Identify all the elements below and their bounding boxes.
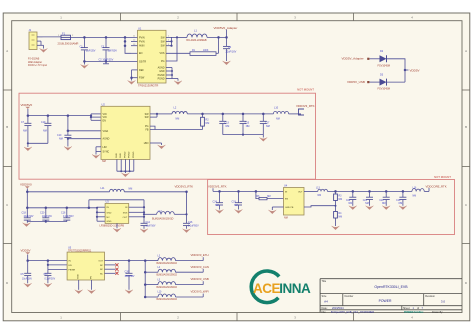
inductor L10 (NM) (273, 111, 288, 114)
ground rail / SS wire (84, 60, 137, 62)
svg-text:NM: NM (226, 125, 230, 128)
svg-text:C21: C21 (363, 200, 368, 202)
inductor L3 (ferrite bead) (145, 260, 158, 262)
IC U3 (LDO) (105, 204, 129, 224)
svg-text:NOT MOUNT: NOT MOUNT (297, 88, 314, 92)
bypass cap rail (27, 207, 97, 209)
ground (C10) (64, 147, 72, 151)
svg-text:PVIN: PVIN (139, 40, 145, 43)
wire to U5 (27, 255, 29, 261)
ground (C4) (223, 61, 231, 65)
svg-text:NM: NM (365, 203, 369, 205)
ground (input caps) (83, 61, 85, 64)
feed riser (26, 189, 28, 208)
svg-text:NM: NM (266, 125, 270, 128)
U1 pin stubs left (131, 40, 138, 42)
svg-text:PGND: PGND (133, 151, 135, 158)
svg-text:C29: C29 (346, 200, 351, 202)
svg-text:NM: NM (413, 196, 417, 198)
node VDD5V0_Adapter (217, 36, 220, 39)
ground (U3) (116, 223, 118, 228)
capacitor C17b (NM) (262, 114, 264, 121)
svg-text:B:\OpenRTK_EVB_V3.0_JYF\POWER: B:\OpenRTK_EVB_V3.0_JYF\POWER (331, 311, 374, 314)
svg-text:BLM18AG601SN1D: BLM18AG601SN1D (157, 273, 178, 276)
ground (C14) (140, 229, 148, 233)
svg-text:PGND: PGND (158, 78, 165, 81)
inductor L4 (ferrite bead) (145, 271, 158, 273)
svg-text:GND: GND (107, 221, 112, 223)
ground (C5) (24, 283, 32, 287)
node VDD5V (404, 69, 407, 72)
U2 SW out (150, 113, 162, 115)
svg-text:3.0: 3.0 (441, 299, 446, 303)
svg-text:GND: GND (107, 212, 112, 214)
wire to U1 EN (125, 37, 131, 53)
svg-text:OUT: OUT (123, 217, 128, 219)
svg-text:EN: EN (139, 52, 143, 55)
op-amp U1 (buck regulator) (138, 30, 167, 83)
svg-text:NOT MOUNT: NOT MOUNT (434, 175, 451, 179)
svg-text:OUT: OUT (298, 191, 303, 193)
wire J1 to F1 (43, 36, 62, 38)
wire FB divider (304, 206, 336, 207)
svg-text:D: D (6, 281, 8, 285)
ground (U1 PGND) (174, 81, 182, 85)
capacitor C20 (45, 208, 47, 218)
svg-text:1uF/50V: 1uF/50V (108, 50, 118, 53)
capacitor C24 (NM) (219, 191, 221, 202)
wire U4 GND to ground (272, 206, 283, 208)
svg-text:Date:: Date: (322, 307, 328, 310)
svg-text:NM: NM (284, 217, 288, 220)
port glyph (299, 109, 305, 115)
capacitor C26 (128, 261, 130, 274)
ground (U4 GND) (268, 210, 276, 214)
svg-text:VDD3V3_RTK: VDD3V3_RTK (208, 184, 227, 188)
capacitor C16b (183, 222, 190, 224)
svg-text:L12: L12 (158, 210, 163, 213)
svg-text:2019/5/24: 2019/5/24 (332, 306, 344, 310)
svg-text:ACE: ACE (253, 281, 280, 296)
ground (U1 DEF/FSW) (128, 81, 136, 85)
svg-text:10uF/16V: 10uF/16V (24, 216, 34, 218)
svg-text:PGND: PGND (124, 151, 126, 158)
svg-text:C26: C26 (125, 271, 130, 274)
svg-text:A: A (465, 49, 467, 53)
svg-text:FSV1045M: FSV1045M (378, 88, 391, 91)
capacitor C19 (NM) (47, 116, 49, 124)
svg-text:POWER.SchDoc: POWER.SchDoc (404, 311, 424, 314)
svg-text:FB: FB (145, 129, 148, 132)
connector J1 (29, 32, 37, 50)
svg-text:XFL4020-222MEB: XFL4020-222MEB (186, 39, 207, 42)
svg-text:C19: C19 (41, 121, 46, 124)
svg-text:Sheet: Sheet (403, 307, 410, 310)
svg-text:NM: NM (23, 129, 27, 132)
NOT MOUNT box 1 (19, 93, 316, 179)
svg-text:VDD3V3_WIFI: VDD3V3_WIFI (191, 290, 210, 294)
ground (U5 PG) (88, 290, 96, 294)
svg-text:of: of (417, 307, 419, 310)
svg-text:NM: NM (102, 160, 106, 163)
svg-text:POWER: POWER (379, 299, 392, 303)
svg-text:FB/NR: FB/NR (69, 270, 76, 272)
capacitor C17c (47, 270, 49, 274)
svg-text:SNS: SNS (123, 212, 128, 214)
U3 left pin stubs (97, 206, 105, 208)
node junctions on input rail (83, 36, 86, 39)
svg-text:B: B (6, 125, 8, 129)
svg-text:A4: A4 (324, 299, 328, 303)
ground (U5 GND) (75, 290, 83, 294)
output rail (box2) (327, 190, 412, 192)
svg-text:NM: NM (43, 129, 47, 132)
net VDD3V3_CAN (176, 271, 204, 273)
svg-text:10uF/16V: 10uF/16V (125, 276, 135, 278)
svg-text:VDD5V_USB: VDD5V_USB (347, 80, 365, 84)
svg-text:D: D (465, 281, 467, 285)
svg-text:VDD3V3_RTK: VDD3V3_RTK (175, 184, 194, 188)
svg-text:GND: GND (116, 153, 118, 158)
capacitor C7 (NM) (27, 116, 29, 124)
ACEINNA logo arc (251, 271, 279, 303)
svg-text:L11: L11 (101, 187, 106, 190)
svg-text:VDD5V_Adapter: VDD5V_Adapter (342, 57, 364, 61)
svg-text:VDD3V3_ETH: VDD3V3_ETH (191, 253, 209, 257)
capacitor C1 (83, 37, 85, 47)
svg-text:NM: NM (176, 118, 180, 121)
svg-text:B: B (465, 125, 467, 129)
svg-text:VDDCORE_RTK: VDDCORE_RTK (426, 184, 447, 188)
U5 EN/FB ties (47, 261, 49, 270)
svg-text:VDD3V3_RTK: VDD3V3_RTK (296, 104, 315, 108)
svg-text:Title: Title (322, 280, 327, 283)
inductor L16 (NM) (412, 189, 424, 192)
wire to U4 IN rail (212, 188, 214, 191)
svg-text:C18: C18 (22, 211, 27, 214)
svg-text:C20: C20 (40, 211, 45, 214)
U2 LIM/SYNC stubs (96, 146, 101, 148)
svg-text:Size: Size (322, 295, 327, 298)
svg-text:GND PB: GND PB (285, 207, 294, 209)
svg-text:NM: NM (399, 203, 403, 205)
ground (U2 GND) (122, 173, 130, 177)
wire U2 AGND (68, 138, 101, 140)
svg-text:TPS77533QDRRRQ1: TPS77533QDRRRQ1 (68, 250, 92, 253)
ground (output caps box1) (223, 134, 263, 136)
capacitor C3 (105, 37, 107, 47)
wire VDD5V0 to rail (27, 109, 29, 116)
resistor R3 (NM) (335, 191, 337, 194)
wire L11 to VDD3V3_RTK node (124, 191, 186, 193)
svg-text:Drawn By:: Drawn By: (432, 311, 443, 314)
svg-text:EN: EN (69, 265, 72, 267)
ground (C26) (125, 290, 133, 294)
svg-text:100K: 100K (203, 50, 209, 52)
svg-text:FSV1045M: FSV1045M (378, 64, 391, 67)
svg-text:NM: NM (276, 118, 280, 121)
wire to D2 (370, 58, 380, 60)
svg-text:EN: EN (285, 199, 288, 201)
svg-text:PG: PG (161, 60, 165, 63)
ground (C16b) (183, 229, 191, 233)
wire R1 to output node (216, 52, 219, 54)
inductor L5 (ferrite bead) (145, 284, 158, 286)
svg-text:C16: C16 (61, 211, 66, 214)
bypass wire over U3 (88, 200, 90, 208)
IC U4 (NM LDO) (284, 188, 305, 216)
ground (C17c) (44, 283, 52, 287)
svg-text:C10: C10 (396, 200, 401, 202)
svg-text:NM: NM (339, 199, 343, 201)
U2 bottom GND pins (116, 159, 118, 171)
svg-text:BLM18AG601SN1D: BLM18AG601SN1D (157, 262, 178, 265)
inductor L2 (NM) (162, 113, 172, 115)
ground (C24) (216, 210, 224, 214)
wire U2 LBO to ground (150, 142, 162, 144)
capacitor C29 (NM) (352, 191, 354, 197)
resistor R2 (NM) (202, 114, 204, 117)
svg-text:SYNC: SYNC (103, 151, 110, 154)
svg-text:Number: Number (345, 295, 354, 298)
top rail VDD3V3_RTK option (27, 191, 109, 193)
svg-text:L10: L10 (274, 107, 279, 110)
ground (C21) (366, 206, 374, 210)
distribution bus (144, 261, 146, 297)
svg-text:22uF/16V: 22uF/16V (226, 51, 237, 54)
svg-text:LIM: LIM (103, 146, 107, 149)
svg-text:DEF: DEF (139, 69, 144, 72)
ground (band3 caps) (27, 221, 67, 223)
wires U1 DEF/FSW to ground (132, 69, 138, 71)
svg-text:PG: PG (91, 276, 93, 279)
resistor R1 (190, 52, 216, 56)
inductor L11 (NM) (110, 189, 125, 192)
svg-text:0.1uF/50V: 0.1uF/50V (63, 216, 74, 218)
svg-text:NM: NM (349, 203, 353, 205)
fuse F1 (61, 35, 71, 39)
svg-text:DC6V+/-7V Input: DC6V+/-7V Input (28, 64, 47, 67)
ground (U2 LIM) (92, 155, 100, 159)
svg-text:2016L300/16AMR: 2016L300/16AMR (58, 42, 79, 46)
resistor R4 (NM) (334, 212, 338, 219)
wire U2 VINA (67, 116, 69, 131)
capacitor C15 (NM) (242, 114, 244, 121)
inductor L13 (NM) (304, 190, 318, 192)
svg-text:OUT: OUT (98, 261, 103, 263)
capacitor C14 (141, 222, 148, 224)
zone tick marks (120, 13, 122, 21)
svg-text:VINA: VINA (103, 130, 109, 133)
inductor L1 (177, 36, 187, 38)
svg-text:AVIN: AVIN (139, 45, 145, 48)
svg-text:AGND: AGND (103, 138, 110, 141)
svg-text:1uF/35V: 1uF/35V (86, 50, 96, 53)
svg-text:BLM18AG601SN1D: BLM18AG601SN1D (157, 298, 178, 301)
svg-text:C: C (465, 203, 467, 207)
U3 right pin stubs (129, 206, 144, 208)
svg-text:EN: EN (103, 119, 107, 122)
NOT MOUNT box 2 (208, 180, 455, 235)
wire to D3 (370, 81, 380, 83)
svg-text:NM: NM (318, 195, 322, 197)
svg-text:NM: NM (246, 125, 250, 128)
ground (C22) (382, 206, 390, 210)
svg-text:0.1uF/50V: 0.1uF/50V (45, 279, 56, 281)
svg-text:LP38692SD-3.3/NOPB: LP38692SD-3.3/NOPB (100, 225, 125, 228)
svg-text:10uF/16V: 10uF/16V (146, 226, 156, 228)
svg-text:VDD5V0: VDD5V0 (21, 103, 33, 107)
svg-text:AGND: AGND (158, 66, 165, 69)
capacitor C18 (26, 208, 28, 218)
svg-text:NC: NC (107, 217, 111, 219)
svg-text:U1: U1 (138, 26, 142, 30)
IC U2 (101, 106, 150, 159)
svg-text:FSW: FSW (139, 77, 145, 80)
output rail (box1) (187, 113, 273, 115)
wire R2 to FB (150, 129, 203, 131)
ground (C10b) (399, 206, 407, 210)
resistor R6 (NM) to EN (256, 191, 259, 198)
IC U5 (LDO) (67, 252, 104, 280)
svg-text:Revision: Revision (425, 295, 435, 298)
U2 VIN/EN stubs (90, 114, 92, 120)
svg-text:BLM18AG601SN1D: BLM18AG601SN1D (157, 286, 178, 289)
svg-text:C16: C16 (188, 221, 193, 224)
svg-text:U2: U2 (102, 102, 106, 106)
capacitor C13 (NM) (222, 114, 224, 121)
svg-text:VDD5V0: VDD5V0 (20, 183, 32, 187)
svg-text:0.1uF/50V: 0.1uF/50V (188, 226, 199, 228)
U1 AGND/PGND pins to ground (166, 67, 172, 69)
svg-text:C17: C17 (44, 273, 49, 276)
svg-text:GND: GND (159, 70, 165, 73)
ground (C19b) (235, 210, 243, 214)
title block frame (319, 279, 321, 313)
svg-text:NM: NM (206, 122, 210, 125)
svg-text:C22: C22 (379, 200, 384, 202)
capacitor C21 (NM) (369, 191, 371, 197)
U5 bottom pins to ground (78, 280, 80, 290)
capacitor C10 (NM) (67, 131, 69, 135)
capacitor C16a (66, 208, 68, 218)
svg-text:NM: NM (129, 187, 133, 190)
ground (C29) (349, 206, 357, 210)
U5 NC pins (105, 264, 116, 266)
wire D2 to VDD5V node (387, 59, 406, 82)
svg-text:VDD5V: VDD5V (410, 68, 420, 72)
svg-text:INNA: INNA (279, 281, 311, 296)
J1 pin stubs (37, 36, 43, 38)
net VDD3V3_RTK (box1 out) (289, 113, 301, 115)
wire U1 PG (166, 37, 177, 61)
U1 SW pin stubs right (166, 36, 177, 38)
svg-text:C: C (6, 203, 8, 207)
ground (J1) (40, 49, 48, 53)
capacitor C4 (226, 37, 228, 46)
svg-text:File:: File: (322, 311, 327, 314)
svg-text:VOS: VOS (159, 52, 164, 55)
svg-text:C2 10uF/25V: C2 10uF/25V (99, 58, 114, 61)
svg-text:A: A (6, 49, 8, 53)
net VDDCORE_RTK (424, 190, 429, 192)
capacitor C10b (NM) (402, 191, 404, 197)
U5 OUT wire (105, 260, 146, 262)
ground (C7/C19) (28, 142, 48, 144)
svg-text:PVIN: PVIN (139, 36, 145, 39)
wire D3 to VDD5V node (387, 81, 406, 83)
svg-text:NM: NM (59, 137, 63, 140)
diode D3 (380, 79, 387, 86)
svg-text:VDD3V3_CAN: VDD3V3_CAN (191, 265, 209, 269)
inductor L12 (144, 213, 157, 215)
svg-text:10uF/16V: 10uF/16V (22, 279, 32, 281)
wire U1 VOS (166, 52, 190, 54)
input rail (box1) (28, 115, 91, 117)
capacitor C5 (27, 261, 29, 274)
net VDD3V3_WIFI (176, 296, 204, 298)
svg-text:NC: NC (100, 269, 104, 271)
svg-text:NM: NM (339, 216, 343, 218)
svg-text:NM: NM (382, 203, 386, 205)
svg-text:GND: GND (120, 153, 122, 158)
svg-text:NC: NC (100, 273, 104, 275)
net VDD3V3_USB (176, 284, 204, 286)
svg-text:SS/TR: SS/TR (139, 60, 146, 63)
inductor L10 (ferrite bead) (145, 296, 158, 298)
svg-text:OpenRTK330LI_EVB: OpenRTK330LI_EVB (374, 285, 408, 289)
diode D2 (380, 55, 387, 62)
capacitor C19b (NM) (238, 191, 240, 202)
svg-text:GND: GND (78, 274, 80, 279)
svg-text:C14: C14 (146, 221, 151, 224)
svg-text:VDD5V0_Adapter: VDD5V0_Adapter (214, 26, 238, 30)
ground (R4) (332, 226, 340, 230)
svg-text:10uF/16V: 10uF/16V (42, 216, 52, 218)
wire L12 to VDD3V3_RTK riser (174, 213, 186, 215)
net VDD3V3_ETH (176, 260, 204, 262)
svg-text:NM: NM (215, 204, 219, 207)
svg-text:VDD3V3_USB: VDD3V3_USB (191, 277, 209, 281)
svg-text:PGND: PGND (129, 151, 131, 158)
svg-text:VDD5V: VDD5V (21, 248, 31, 252)
wire F1 to U1 PVIN (71, 36, 138, 38)
svg-text:NC: NC (100, 265, 104, 267)
svg-text:NM: NM (267, 196, 271, 198)
svg-text:LBO: LBO (144, 142, 149, 145)
svg-text:NM: NM (234, 204, 238, 207)
svg-text:BLM18AG601SN1D: BLM18AG601SN1D (152, 217, 174, 220)
svg-text:TPS62130RGTR: TPS62130RGTR (138, 84, 158, 88)
capacitor C22 (NM) (385, 191, 387, 197)
